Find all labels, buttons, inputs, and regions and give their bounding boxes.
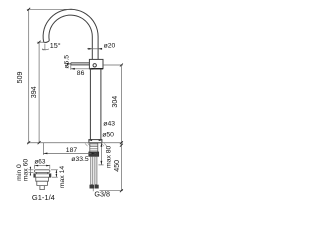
counter hatch left [85,143,90,146]
arrow max60 up [30,172,31,175]
arrow o50 right [99,139,102,141]
svg-text:509: 509 [16,71,24,83]
dim line o20 [87,48,102,50]
svg-text:ø50: ø50 [102,132,114,139]
dim line max14 [55,170,57,177]
dim line o63 [35,165,50,167]
dim line 394 [38,42,40,143]
spout outlet extension line [37,41,46,43]
top extension line [27,8,70,10]
tick 304 top [120,64,123,67]
dim line 509 [28,9,30,142]
hose end fitting right [95,185,99,189]
svg-text:304: 304 [111,96,119,108]
lever pivot circle [93,64,96,67]
arrow o20 left [88,48,92,50]
arrow o63 left [35,165,39,167]
right hose [95,156,97,184]
tick 304 bottom [120,141,123,144]
drain neck [36,172,38,173]
dim line 304 and 450 [120,65,122,191]
spout inner arc [49,15,92,59]
svg-text:ø63: ø63 [34,159,45,166]
hose end fitting left [90,185,95,189]
ticks [27,8,123,192]
angle arc [42,48,49,51]
ext max14 bottom [52,176,58,178]
svg-text:G3/8: G3/8 [94,190,110,199]
svg-text:86: 86 [77,70,85,77]
arrow o6.5 leader [67,63,71,65]
drain flange dark sides [34,174,36,177]
arrow max14 top [56,170,58,173]
dim line max80 [100,143,102,165]
dim line min0max60 [29,167,31,176]
tick 509 top [27,8,30,11]
tick 450 bottom [120,189,123,192]
drain flange [34,174,51,177]
tick 509 bottom [27,141,30,144]
arrow o50 left [89,139,92,141]
svg-text:max 14: max 14 [59,166,66,189]
ext min0 top [28,169,33,171]
drain body [36,177,49,185]
base flange [89,140,102,143]
angle vertex stub [44,44,46,51]
ext body right for 304 [103,64,123,66]
ext min0 bottom [28,171,33,173]
countertop line [27,142,122,144]
ext 86 left [70,65,72,70]
tick 394 top [38,41,41,44]
arrow 86 right [92,68,96,70]
lever rod [71,63,90,65]
drain cap [35,170,50,173]
ext o63 right [49,165,51,169]
ext hose bottom for 450 [100,190,123,192]
svg-text:ø20: ø20 [104,42,116,49]
svg-text:ø6.5: ø6.5 [63,55,70,69]
arrow max14 bottom [56,174,58,177]
spout outer arc [43,9,98,59]
mixer body block [89,59,103,68]
dim line 187 [43,152,95,154]
arrow max80 bottom [101,161,103,165]
svg-text:450: 450 [113,160,121,172]
ext max14 top [51,169,58,171]
left hose [91,156,93,184]
drain tail [40,186,44,190]
15 degree angle annotation [42,44,49,51]
arrows [43,48,102,165]
ext max80 bottom [99,164,104,166]
tick 450 top [120,144,123,147]
svg-text:15°: 15° [50,41,61,50]
angle arc arrow [42,49,43,50]
svg-text:max 80: max 80 [106,145,113,168]
dim line 86 [71,68,96,70]
tick 394 bottom [38,141,41,144]
svg-text:G1-1/4: G1-1/4 [32,193,55,202]
svg-text:ø33.5: ø33.5 [71,156,89,163]
arrow 187 right [92,153,96,155]
svg-text:187: 187 [66,147,78,154]
G3/8 leader stub [92,189,94,192]
threaded shank [90,143,98,152]
arrow max80 top [101,143,103,147]
svg-text:ø43: ø43 [103,121,115,128]
svg-text:394: 394 [30,86,38,98]
arrow o63 right [46,165,50,167]
column [90,69,101,140]
arrow min0 down [30,167,31,170]
ext o63 left [34,165,36,169]
svg-text:max 60: max 60 [22,159,29,182]
drain dimensions [28,165,57,177]
body bottom shadow edge [89,68,103,70]
arrow 86 left [71,68,75,70]
ext drain axis [42,143,44,155]
arrow o20 right [98,48,102,50]
mounting nut [89,152,99,157]
counter hatch right [102,143,107,146]
arrow 187 left [43,153,47,155]
spout tip aerator [44,40,50,42]
